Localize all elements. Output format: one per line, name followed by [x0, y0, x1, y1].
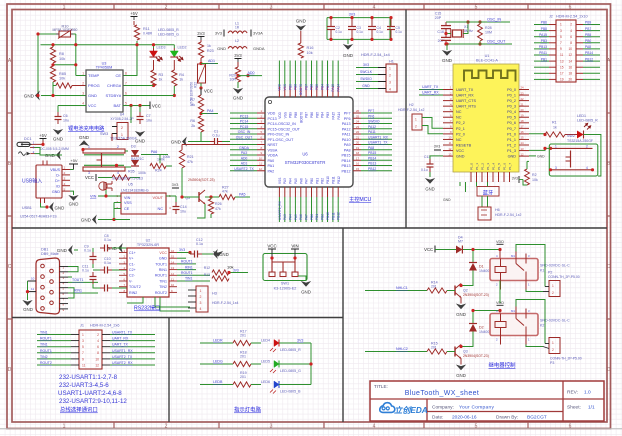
- date text: [432, 415, 547, 421]
- svg-text:2: 2: [82, 82, 84, 86]
- ground below C6: [53, 129, 64, 142]
- svg-text:9: 9: [82, 357, 84, 361]
- section divider vertical top: [405, 10, 407, 229]
- svg-text:V+: V+: [129, 257, 134, 261]
- thermistor R10: [53, 25, 78, 39]
- svg-text:PB13: PB13: [341, 164, 350, 168]
- svg-text:主控MCU: 主控MCU: [349, 195, 371, 203]
- wire sw2 to module: [529, 147, 551, 159]
- svg-text:BOOT0: BOOT0: [299, 84, 303, 95]
- svg-text:GND: GND: [23, 307, 33, 312]
- resistor R35: [98, 170, 146, 181]
- svg-text:10k: 10k: [532, 178, 538, 182]
- relay K2 circuit: [365, 300, 582, 379]
- svg-text:0.1u: 0.1u: [104, 238, 111, 242]
- svg-text:3V3: 3V3: [172, 183, 179, 187]
- power flag VCC sw1: [267, 244, 276, 259]
- ground GND charger left: [24, 91, 86, 101]
- svg-text:U5: U5: [128, 183, 133, 187]
- svg-text:23: 23: [521, 91, 525, 95]
- svg-text:GND: GND: [69, 202, 79, 207]
- svg-text:GND: GND: [52, 190, 60, 194]
- svg-text:1: 1: [552, 284, 554, 288]
- svg-text:PF7: PF7: [344, 112, 351, 116]
- svg-text:PB6: PB6: [541, 21, 547, 25]
- connector DC1 jack: [17, 133, 69, 155]
- svg-text:PA8: PA8: [368, 146, 374, 150]
- LED row LED6: [200, 371, 311, 394]
- svg-text:USB输入: USB输入: [22, 178, 42, 185]
- svg-text:8: 8: [125, 72, 127, 76]
- svg-text:0.1u: 0.1u: [84, 249, 91, 253]
- svg-text:ROUT1: ROUT1: [181, 260, 193, 264]
- wire LED bus: [297, 339, 313, 385]
- svg-text:10u: 10u: [180, 210, 186, 214]
- svg-text:AD0: AD0: [241, 156, 248, 160]
- svg-text:P1_7: P1_7: [508, 163, 512, 170]
- svg-text:10u: 10u: [63, 119, 69, 123]
- svg-text:ROUT2: ROUT2: [155, 291, 167, 295]
- svg-text:VCC: VCC: [424, 247, 433, 252]
- svg-text:P1_6: P1_6: [502, 163, 506, 170]
- svg-text:1: 1: [555, 145, 557, 149]
- svg-text:24: 24: [356, 120, 360, 124]
- svg-text:24: 24: [521, 86, 525, 90]
- switch SW3: [81, 132, 137, 175]
- svg-text:PB10: PB10: [326, 176, 330, 184]
- svg-text:PB2: PB2: [321, 214, 325, 220]
- svg-text:3V3: 3V3: [233, 269, 239, 273]
- svg-text:4: 4: [97, 339, 99, 343]
- svg-text:AD0: AD0: [248, 71, 255, 75]
- svg-text:0.1u: 0.1u: [213, 134, 220, 138]
- svg-text:10k: 10k: [59, 77, 65, 81]
- svg-text:3V3: 3V3: [512, 177, 518, 181]
- svg-text:C6: C6: [63, 114, 68, 118]
- svg-text:REV:: REV:: [567, 390, 578, 396]
- svg-text:UART_RX: UART_RX: [422, 91, 439, 95]
- svg-text:1/1: 1/1: [588, 405, 595, 411]
- svg-text:12: 12: [568, 53, 572, 57]
- svg-text:TIN2: TIN2: [40, 355, 48, 359]
- svg-text:U1: U1: [485, 54, 490, 58]
- connector H6: [478, 207, 522, 220]
- svg-text:PF1-OSC_OUT: PF1-OSC_OUT: [268, 138, 295, 142]
- svg-text:USART1_RX: USART1_RX: [112, 349, 133, 353]
- svg-text:D2: D2: [479, 326, 484, 330]
- svg-text:GND: GND: [57, 248, 68, 253]
- svg-text:P0_7: P0_7: [507, 127, 516, 131]
- svg-text:R8: R8: [59, 52, 64, 56]
- capacitor C14: [173, 202, 187, 214]
- svg-text:NC: NC: [456, 138, 462, 142]
- svg-text:VIN: VIN: [291, 244, 298, 249]
- svg-text:C: C: [607, 264, 611, 270]
- svg-text:USART1_RX: USART1_RX: [368, 135, 389, 139]
- inductor L2: [217, 39, 265, 51]
- wire r6 gnd: [190, 132, 201, 142]
- svg-text:PA1: PA1: [268, 164, 275, 168]
- svg-text:D: D: [8, 367, 12, 373]
- power flag 3V3 r20: [234, 53, 242, 67]
- svg-text:2: 2: [415, 125, 417, 129]
- svg-text:201: 201: [240, 355, 246, 359]
- svg-text:11: 11: [82, 363, 86, 367]
- svg-text:1: 1: [389, 67, 391, 71]
- svg-text:22: 22: [356, 130, 360, 134]
- svg-text:12: 12: [95, 363, 99, 367]
- wire r22 down: [199, 83, 202, 91]
- svg-text:P0_6: P0_6: [507, 121, 516, 125]
- svg-text:2020-06-16: 2020-06-16: [452, 415, 477, 421]
- connector H2: [398, 103, 443, 134]
- svg-text:PA11: PA11: [368, 130, 376, 134]
- svg-text:GND: GND: [443, 198, 451, 202]
- svg-text:PB11: PB11: [331, 176, 335, 184]
- svg-text:PA5: PA5: [239, 193, 246, 197]
- svg-text:4: 4: [586, 166, 588, 170]
- svg-text:18: 18: [356, 151, 360, 155]
- net VIN label: [90, 190, 121, 199]
- IC U2 pins: [119, 249, 177, 295]
- svg-text:VBUS: VBUS: [50, 168, 60, 172]
- resistor R28: [466, 20, 492, 45]
- svg-text:PB4: PB4: [321, 112, 325, 118]
- svg-text:VIN: VIN: [90, 195, 97, 199]
- svg-text:D+: D+: [55, 179, 60, 183]
- svg-text:PB13: PB13: [539, 45, 547, 49]
- svg-text:8MHz: 8MHz: [464, 29, 473, 33]
- title text: [374, 384, 479, 397]
- svg-text:P1_3: P1_3: [486, 163, 490, 170]
- svg-text:LN1134182MB-G: LN1134182MB-G: [121, 189, 149, 193]
- svg-text:P2_1: P2_1: [456, 127, 465, 131]
- svg-text:PA14: PA14: [337, 112, 341, 120]
- svg-text:ROUT2: ROUT2: [40, 361, 52, 365]
- svg-text:R28: R28: [485, 26, 492, 30]
- svg-text:PB15: PB15: [368, 151, 376, 155]
- wire U5 vss ce: [114, 196, 176, 219]
- svg-text:PB15: PB15: [341, 154, 350, 158]
- net OSC_IN: [487, 18, 501, 22]
- svg-text:3: 3: [200, 301, 202, 305]
- svg-text:UART_CTS: UART_CTS: [456, 99, 476, 103]
- LED LED3: [150, 46, 166, 71]
- svg-text:P0_1: P0_1: [507, 93, 516, 97]
- svg-text:14: 14: [568, 59, 572, 63]
- svg-text:4: 4: [389, 88, 391, 92]
- svg-text:CE: CE: [115, 73, 121, 78]
- svg-text:K1: K1: [540, 269, 544, 273]
- svg-text:GND: GND: [219, 252, 229, 257]
- svg-text:3V3: 3V3: [297, 339, 303, 343]
- svg-text:PB8: PB8: [294, 112, 298, 118]
- ground U5: [81, 215, 130, 225]
- wires module bottom to H6: [477, 182, 488, 207]
- svg-text:2: 2: [552, 348, 554, 352]
- svg-text:锂电池充电电路: 锂电池充电电路: [68, 124, 105, 132]
- thermistor R22: [190, 58, 206, 106]
- svg-text:P1_2: P1_2: [507, 143, 516, 147]
- net PA6 wire: [141, 150, 168, 155]
- svg-text:VDD: VDD: [268, 112, 276, 116]
- svg-text:GNDA: GNDA: [239, 146, 250, 150]
- svg-text:PA8: PA8: [585, 45, 591, 49]
- svg-text:RIN1: RIN1: [159, 268, 167, 272]
- svg-text:P0_2: P0_2: [507, 99, 516, 103]
- svg-text:GND: GND: [442, 58, 453, 63]
- svg-text:19: 19: [521, 113, 525, 117]
- svg-text:R1: R1: [552, 121, 557, 125]
- capacitor C8: [100, 234, 127, 252]
- svg-text:Date:: Date:: [432, 415, 443, 421]
- svg-text:LED-0805_B: LED-0805_B: [280, 390, 301, 394]
- svg-text:1: 1: [200, 289, 202, 293]
- power flag VIN sw1: [291, 244, 299, 259]
- svg-text:1k: 1k: [179, 78, 183, 82]
- wires MCU right pins: [361, 109, 392, 171]
- svg-text:CONN-TH_2P-P5.00: CONN-TH_2P-P5.00: [548, 275, 580, 279]
- svg-text:STM32F030C8T6TR: STM32F030C8T6TR: [285, 160, 326, 165]
- capacitors C2 C3 C4 C5: [327, 13, 402, 42]
- label SW1: [274, 282, 297, 291]
- net 3V3 flag R2: [512, 176, 523, 183]
- svg-text:VCC: VCC: [152, 104, 161, 109]
- svg-text:PA12: PA12: [368, 125, 376, 129]
- section divider horizontal left-bottom: [12, 317, 343, 319]
- svg-text:0.1u: 0.1u: [357, 30, 363, 34]
- svg-text:PA6: PA6: [151, 150, 158, 154]
- capacitor C10: [93, 257, 127, 274]
- svg-text:BAT: BAT: [114, 103, 122, 108]
- svg-text:232-USART1:1-2,7-8: 232-USART1:1-2,7-8: [59, 374, 118, 381]
- net 3V3 u2: [177, 248, 192, 254]
- svg-text:1: 1: [560, 23, 562, 27]
- svg-text:Drawn By:: Drawn By:: [496, 415, 518, 421]
- svg-text:PA3: PA3: [241, 151, 247, 155]
- svg-text:GND: GND: [159, 257, 167, 261]
- svg-text:P0_0: P0_0: [507, 88, 516, 92]
- svg-text:14: 14: [521, 141, 525, 145]
- capacitor C15: [435, 12, 451, 34]
- net RIN1 db9: [74, 289, 82, 293]
- svg-text:0.1u: 0.1u: [104, 261, 111, 265]
- svg-text:TIN1: TIN1: [40, 343, 48, 347]
- svg-text:22: 22: [521, 97, 525, 101]
- svg-text:GND: GND: [296, 19, 307, 24]
- wires crystal rails: [444, 22, 512, 46]
- svg-text:2: 2: [586, 145, 588, 149]
- svg-text:HDR-M-2.54_2x10: HDR-M-2.54_2x10: [556, 15, 588, 19]
- resistor R3: [151, 70, 163, 86]
- svg-text:6: 6: [97, 345, 99, 349]
- svg-text:4: 4: [373, 5, 376, 11]
- svg-text:立创EDA: 立创EDA: [394, 405, 428, 415]
- svg-text:ROUT1: ROUT1: [40, 337, 52, 341]
- svg-text:RIN1: RIN1: [74, 289, 82, 293]
- connector DB1 DB9: [36, 248, 68, 315]
- svg-text:VCC: VCC: [159, 251, 167, 255]
- svg-text:OSC_OUT: OSC_OUT: [236, 135, 252, 139]
- svg-text:18: 18: [521, 119, 525, 123]
- svg-text:16: 16: [568, 65, 572, 69]
- svg-text:7: 7: [125, 82, 127, 86]
- svg-text:指示灯电路: 指示灯电路: [234, 406, 262, 414]
- svg-text:PA14: PA14: [336, 84, 340, 92]
- svg-text:USART2_TX: USART2_TX: [112, 355, 133, 359]
- svg-text:PB8: PB8: [294, 84, 298, 90]
- svg-text:R16: R16: [307, 46, 314, 50]
- svg-text:21: 21: [356, 135, 360, 139]
- svg-text:23: 23: [356, 125, 360, 129]
- svg-text:3: 3: [82, 339, 84, 343]
- svg-text:PA3: PA3: [283, 178, 287, 184]
- wires U2 bottom: [127, 297, 190, 311]
- svg-text:PB1: PB1: [315, 178, 319, 184]
- net OSC_OUT: [487, 40, 506, 44]
- svg-text:1: 1: [82, 333, 84, 337]
- svg-text:7: 7: [82, 351, 84, 355]
- svg-text:U2: U2: [146, 239, 151, 243]
- svg-text:4: 4: [570, 29, 572, 33]
- svg-text:H2: H2: [409, 103, 414, 107]
- LED row LED4: [200, 330, 311, 353]
- svg-text:0.1u: 0.1u: [196, 242, 203, 246]
- ground usb shell: [41, 202, 65, 212]
- resistor R16: [298, 43, 313, 58]
- svg-text:VCC: VCC: [267, 244, 276, 249]
- svg-text:VSSA: VSSA: [268, 148, 278, 152]
- svg-text:PA6: PA6: [299, 214, 303, 220]
- svg-text:UART_RX: UART_RX: [112, 337, 129, 341]
- svg-text:PB9: PB9: [289, 112, 293, 118]
- svg-text:232-USART2:9-10,11-12: 232-USART2:9-10,11-12: [59, 398, 127, 405]
- power flag +5V usb: [64, 158, 78, 170]
- svg-text:12: 12: [448, 147, 452, 151]
- svg-text:DC1: DC1: [24, 137, 32, 141]
- svg-text:17: 17: [521, 125, 525, 129]
- svg-text:13: 13: [521, 147, 525, 151]
- svg-text:3: 3: [270, 5, 273, 11]
- resistor R6: [190, 116, 203, 132]
- svg-text:201: 201: [240, 375, 246, 379]
- LED LED1: [565, 114, 601, 176]
- svg-text:PA13: PA13: [342, 122, 351, 126]
- resistor R21: [163, 145, 257, 169]
- svg-text:TS3215A 250GF: TS3215A 250GF: [567, 139, 593, 143]
- power flag 3V3 r23: [197, 31, 205, 42]
- resistor R27: [205, 186, 235, 200]
- wires U2 right nets: [177, 258, 210, 281]
- svg-text:100k: 100k: [163, 155, 171, 159]
- net UART_RX wire: [419, 91, 443, 96]
- ground below DB9: [22, 277, 36, 313]
- svg-text:1: 1: [82, 72, 84, 76]
- svg-text:3: 3: [560, 29, 562, 33]
- svg-text:P3: P3: [550, 361, 554, 365]
- svg-text:PB13: PB13: [368, 162, 376, 166]
- svg-text:1: 1: [88, 145, 90, 149]
- resistor R1: [545, 121, 565, 138]
- svg-text:TIN2: TIN2: [159, 285, 167, 289]
- transistor Q5: [180, 168, 214, 204]
- svg-text:0.1u: 0.1u: [82, 269, 89, 273]
- svg-text:LED-0805_G: LED-0805_G: [158, 33, 179, 37]
- svg-text:2k: 2k: [191, 124, 195, 128]
- svg-text:CHRG#: CHRG#: [107, 83, 122, 88]
- svg-text:PB2: PB2: [321, 178, 325, 184]
- svg-text:VDD: VDD: [278, 111, 282, 118]
- IC U5 LN1134: [116, 183, 171, 215]
- svg-text:TOUT1: TOUT1: [72, 278, 83, 282]
- svg-text:BLE-CC41-A: BLE-CC41-A: [476, 59, 498, 63]
- svg-text:R7: R7: [190, 98, 195, 102]
- svg-text:PF6: PF6: [368, 114, 374, 118]
- svg-text:USART1-UART:2-4,6-8: USART1-UART:2-4,6-8: [58, 390, 122, 397]
- svg-text:GND: GND: [88, 93, 97, 98]
- svg-text:GND: GND: [55, 206, 65, 211]
- svg-text:Company:: Company:: [432, 405, 454, 411]
- label LED-0805_G: [158, 33, 179, 37]
- svg-text:R85: R85: [59, 72, 66, 76]
- wire q5 emitter gnd: [197, 204, 205, 218]
- svg-text:K3-1290S-E2: K3-1290S-E2: [274, 287, 297, 291]
- svg-text:VIN: VIN: [124, 196, 131, 200]
- svg-text:J2: J2: [549, 15, 553, 19]
- svg-text:STDBY#: STDBY#: [105, 93, 121, 98]
- svg-text:10M: 10M: [485, 31, 492, 35]
- svg-text:5: 5: [125, 102, 127, 106]
- svg-text:USB1: USB1: [22, 206, 32, 210]
- IC U6 STM32F030C8T6TR: [257, 87, 361, 198]
- svg-text:PB5: PB5: [315, 84, 319, 90]
- svg-text:PB0: PB0: [585, 39, 591, 43]
- svg-text:D1: D1: [479, 265, 484, 269]
- svg-text:RESETB: RESETB: [456, 143, 472, 147]
- wire module right to R1: [529, 133, 547, 136]
- power flag 3V3 q5: [172, 183, 179, 188]
- svg-text:SW3: SW3: [100, 132, 108, 136]
- LED LED2: [170, 46, 186, 71]
- svg-text:AD1: AD1: [208, 59, 215, 63]
- svg-text:GND: GND: [171, 140, 182, 145]
- svg-text:U254-051T-4BH83-F1S: U254-051T-4BH83-F1S: [20, 215, 57, 219]
- svg-text:DB1: DB1: [41, 248, 48, 252]
- svg-text:+5V: +5V: [70, 158, 78, 163]
- svg-text:R4: R4: [179, 73, 184, 77]
- svg-text:6: 6: [125, 92, 127, 96]
- resistor R85: [50, 66, 66, 82]
- svg-text:5: 5: [82, 345, 84, 349]
- capacitor C1 gnda: [171, 130, 230, 147]
- svg-text:47k: 47k: [187, 160, 193, 164]
- capacitor C16: [437, 30, 451, 44]
- svg-text:L2: L2: [235, 39, 239, 43]
- wires MCU top pins: [278, 61, 341, 95]
- power flag VCC mosfet: [85, 174, 96, 181]
- svg-text:USART2_TX: USART2_TX: [234, 167, 254, 171]
- svg-text:PB5: PB5: [315, 112, 319, 118]
- svg-text:PB12: PB12: [337, 212, 341, 220]
- svg-text:GND: GND: [81, 218, 92, 223]
- svg-text:5: 5: [560, 35, 562, 39]
- connector USB1: [20, 161, 70, 219]
- svg-text:USART1_TX: USART1_TX: [368, 141, 388, 145]
- ground below C7: [135, 131, 146, 144]
- svg-text:ROUT1: ROUT1: [181, 271, 193, 275]
- svg-text:R13: R13: [204, 273, 210, 277]
- text bus options line3: [58, 390, 122, 397]
